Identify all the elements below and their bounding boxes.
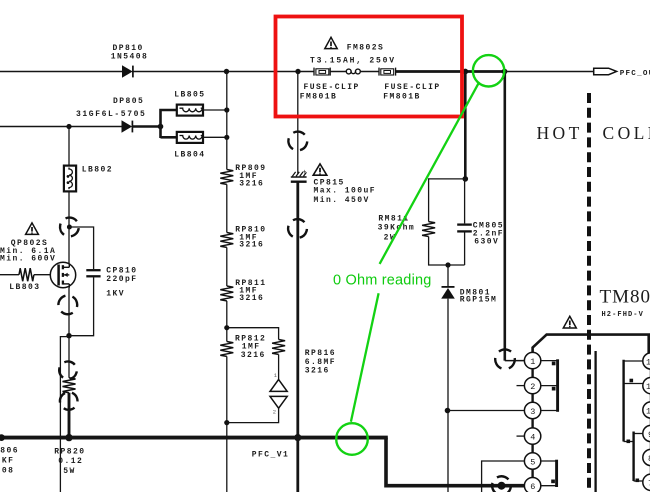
node junction at (227,110)	[224, 107, 229, 112]
svg-text:HOT: HOT	[537, 123, 583, 143]
wire DP805 to junction thick	[132, 125, 161, 128]
node junction at (501.5,485.7)	[498, 482, 506, 490]
test point circle at (297.8,141)	[286, 129, 310, 153]
svg-text:2: 2	[530, 382, 535, 392]
wire pin1-pin2	[531, 369, 533, 378]
red highlight box	[276, 17, 463, 117]
svg-text:FUSE-CLIP: FUSE-CLIP	[384, 83, 440, 92]
node dot at (69.4,227)	[67, 225, 72, 230]
test point circle at (505,359.3)	[492, 347, 517, 372]
secondary winding bracket B	[634, 432, 643, 482]
wire bus x=227 top	[226, 72, 228, 170]
pin4 NC stub	[517, 435, 525, 437]
resistor RP812	[220, 342, 233, 357]
svg-text:806: 806	[0, 446, 19, 455]
test point circle at (68,370.3)	[57, 359, 79, 381]
wire LB803 to gate	[34, 274, 50, 276]
svg-text:FM801B: FM801B	[383, 93, 421, 102]
node junction at (226.8,422.6)	[224, 420, 229, 425]
wire RM811 bottom	[429, 237, 465, 266]
wire node to DM801	[447, 265, 449, 287]
wire RP811 to RP812	[226, 301, 228, 342]
transformer secondary pin 8	[643, 442, 650, 466]
node junction at (160.5,126.5)	[158, 124, 164, 130]
svg-text:0KF: 0KF	[0, 456, 14, 465]
resistor RM811	[422, 222, 435, 237]
wire pin5 left branch	[482, 461, 525, 492]
resistor LB803 ferrite	[19, 268, 34, 281]
wire RP812 to lower node	[226, 356, 228, 422]
wire pin3-pin4	[531, 419, 533, 428]
svg-text:12: 12	[646, 357, 650, 367]
diode DP805	[122, 120, 133, 133]
green leader line lower	[351, 293, 379, 421]
wire RM/CM branch vertical thick	[464, 72, 467, 179]
svg-text:FM801B: FM801B	[300, 93, 338, 102]
wire to pin1	[505, 360, 525, 362]
svg-text:1N5408: 1N5408	[111, 52, 149, 61]
svg-text:5: 5	[530, 457, 535, 467]
capacitor CP815 electrolytic	[291, 169, 307, 182]
transistor QP802S mosfet	[50, 262, 75, 287]
warning triangle for TM801	[563, 316, 576, 328]
test point circle at (297.5,228.5)	[286, 217, 310, 241]
wire bracket to LB805/LB804	[161, 110, 177, 138]
winding bar pins 5-6	[541, 460, 557, 487]
svg-text:Max. 100uF: Max. 100uF	[314, 186, 377, 195]
wire PFC_V1 bus	[0, 436, 388, 440]
wire CP815 column below bus	[296, 438, 299, 492]
svg-text:0 Ohm reading: 0 Ohm reading	[333, 273, 432, 289]
wire node to transformer pin3	[448, 410, 525, 412]
fuse clip FM801B left	[314, 68, 330, 76]
wire top net mid segment	[133, 71, 314, 73]
wire RP816 to spark gap	[278, 354, 280, 379]
svg-text:CP810: CP810	[106, 266, 137, 275]
wire RP820 to bus thick	[68, 393, 71, 438]
svg-text:31GF6L-5705: 31GF6L-5705	[76, 110, 146, 119]
winding bar pins 1-3	[541, 359, 558, 412]
svg-text:PFC_V1: PFC_V1	[252, 450, 290, 459]
capacitor CP810 branch wire top	[69, 227, 93, 269]
node junction at (447.5,410.5)	[445, 408, 451, 414]
fuse FM802S body	[346, 69, 360, 74]
node junction at (504.5,71.5)	[502, 69, 508, 75]
polarity dot secondary B	[636, 479, 640, 483]
svg-text:DP805: DP805	[113, 97, 144, 106]
warning triangle for QP802S	[26, 223, 39, 235]
svg-text:H2-FHD-V: H2-FHD-V	[602, 311, 644, 319]
node junction at (1.5,437.6)	[0, 434, 5, 441]
node junction at (465.3,178.9)	[463, 176, 469, 182]
svg-text:PFC_OUT: PFC_OUT	[620, 70, 650, 78]
svg-text:RGP15M: RGP15M	[460, 295, 498, 304]
wire second net left segment	[0, 126, 122, 128]
svg-text:11: 11	[646, 382, 650, 392]
transformer TM801 pin 2	[524, 377, 540, 393]
svg-text:Min. 450V: Min. 450V	[314, 196, 370, 205]
inductor LB804	[177, 132, 203, 143]
svg-text:LB802: LB802	[82, 165, 113, 174]
svg-text:0.12: 0.12	[58, 457, 83, 466]
inductor LB802	[64, 166, 76, 192]
transformer secondary pin 11	[643, 369, 650, 394]
wire fuse to clip2	[360, 71, 379, 73]
wire pin4-pin5	[531, 444, 533, 453]
wire RP809 to RP810	[226, 184, 228, 232]
spark gap lower triangle	[270, 396, 287, 408]
wire LB802 to drain node	[68, 191, 70, 264]
svg-text:1MF: 1MF	[242, 342, 261, 351]
svg-text:1KV: 1KV	[106, 289, 125, 298]
wire top of RM811 branch	[429, 179, 466, 222]
wire LB804 to bus	[203, 136, 227, 138]
svg-text:T3.15AH, 250V: T3.15AH, 250V	[310, 56, 396, 65]
capacitor CP810	[86, 270, 100, 276]
svg-text:FM802S: FM802S	[347, 43, 385, 52]
wire gate from left edge	[0, 274, 19, 276]
wire bus x=227 bottom to edge	[226, 423, 228, 492]
wire jog to sense line	[60, 337, 69, 492]
svg-text:5W: 5W	[63, 467, 76, 476]
wire bus step down	[386, 438, 524, 486]
wire top net thick segment after fuse	[396, 70, 505, 73]
svg-text:3216: 3216	[305, 366, 330, 375]
diode DP810	[122, 65, 133, 78]
wire RP810 to RP811	[226, 247, 228, 286]
transformer secondary pin 9	[643, 418, 650, 441]
test point circle at (67.8,304.8)	[56, 293, 79, 316]
wire LB805 to bus	[203, 109, 227, 111]
node junction at (298,71.5)	[295, 69, 300, 74]
svg-text:630V: 630V	[474, 238, 499, 247]
transformer TM801 pin 6	[524, 478, 540, 492]
svg-text:3216: 3216	[239, 294, 264, 303]
wire branch to RP816 top	[227, 328, 279, 340]
wire source down	[68, 288, 70, 336]
capacitor CM805	[457, 225, 472, 232]
svg-text:Min. 600V: Min. 600V	[0, 254, 56, 263]
svg-text:LB805: LB805	[174, 91, 205, 100]
node junction at (448,265)	[445, 262, 450, 267]
wire CP810 bottom to source node	[69, 277, 94, 335]
svg-text:4: 4	[530, 432, 535, 442]
wire top net to connector	[505, 71, 595, 73]
polarity dot winding 5-6	[551, 480, 555, 484]
wire CP815 column thick	[296, 182, 299, 438]
polarity dot secondary mid	[627, 440, 631, 444]
spark gap upper triangle	[270, 380, 287, 392]
hot cold divider dashed line	[587, 93, 591, 492]
svg-text:TM801: TM801	[600, 286, 650, 307]
test point circle at (69.4,227)	[59, 216, 81, 238]
connector PFC_OUT	[594, 68, 617, 75]
wire CP815 column top	[297, 72, 299, 174]
transformer TM801 pin 5	[524, 453, 540, 469]
green leader line upper	[380, 83, 479, 264]
transformer secondary pin 7	[643, 466, 650, 491]
svg-text:LB803: LB803	[9, 283, 40, 292]
test point circle at (501.5,485.7)	[489, 473, 514, 492]
green probe circle top	[473, 55, 504, 86]
svg-text:3: 3	[530, 407, 535, 417]
warning triangle for CP815	[313, 164, 327, 175]
test point circle at (68.7,401)	[57, 390, 80, 413]
transformer secondary pin 12	[643, 353, 650, 369]
svg-text:RP820: RP820	[54, 448, 85, 457]
warning triangle for FM802S	[325, 37, 337, 48]
svg-text:6: 6	[530, 482, 535, 492]
wire DM801 to pin3 node	[447, 299, 449, 492]
resistor RP809	[220, 170, 233, 185]
svg-text:2: 2	[273, 408, 276, 415]
svg-text:3216: 3216	[239, 180, 264, 189]
transformer secondary pin 10	[643, 394, 650, 418]
fuse clip FM801B right	[379, 68, 396, 76]
node junction at (69,335.7)	[66, 333, 71, 338]
node junction at (227,137.3)	[224, 135, 229, 140]
green probe circle bottom	[336, 423, 368, 455]
polarity dot winding 1-3 lower	[552, 387, 556, 391]
wire to LB802	[68, 127, 70, 166]
wire CM805 top	[464, 179, 466, 224]
resistor RP816	[272, 340, 285, 355]
svg-text:1: 1	[530, 357, 535, 367]
wire pin2-pin3	[531, 394, 533, 403]
resistor RP810	[220, 233, 233, 248]
secondary winding bracket A	[624, 360, 643, 442]
polarity dot secondary A	[630, 379, 634, 383]
svg-text:FUSE-CLIP: FUSE-CLIP	[304, 83, 360, 92]
transformer TM801 pin 4	[524, 428, 540, 444]
node junction at (69,126.5)	[66, 124, 71, 129]
svg-text:3216: 3216	[241, 351, 266, 360]
wire CM805 bottom	[464, 233, 466, 266]
wire spark gap to lower node	[227, 408, 279, 422]
svg-text:220pF: 220pF	[106, 275, 137, 284]
wire pin1 top feed	[533, 335, 649, 353]
transformer TM801 pin 1	[524, 352, 540, 368]
svg-text:RP816: RP816	[305, 349, 336, 358]
transformer core line	[594, 351, 596, 492]
node junction at (226.8,327.7)	[224, 325, 229, 330]
transformer TM801 pin 3	[524, 402, 540, 418]
wire pin5-pin6	[531, 469, 533, 477]
resistor RP811	[220, 286, 233, 301]
node junction at (465.3,71.5)	[462, 69, 468, 75]
node junction at (226.5,71.5)	[224, 69, 229, 74]
polarity dot winding 1-3 upper	[552, 362, 556, 366]
diode DM801	[441, 287, 455, 299]
inductor LB805	[177, 105, 203, 116]
svg-text:208: 208	[0, 466, 14, 475]
svg-text:COLD: COLD	[603, 123, 650, 143]
wire clip1 to fuse	[330, 71, 346, 73]
wire source node to RP820	[68, 336, 70, 378]
svg-text:LB804: LB804	[174, 151, 205, 160]
svg-text:10: 10	[646, 406, 650, 416]
pin2 NC stub	[517, 385, 525, 387]
svg-text:3216: 3216	[239, 241, 264, 250]
node junction at (69,437.6)	[65, 434, 72, 441]
node junction at (297.8,437.6)	[294, 434, 301, 441]
resistor RP820	[63, 378, 76, 393]
wire top net left segment	[0, 71, 122, 73]
svg-text:+: +	[302, 169, 306, 177]
wire transformer primary feed	[503, 72, 506, 361]
